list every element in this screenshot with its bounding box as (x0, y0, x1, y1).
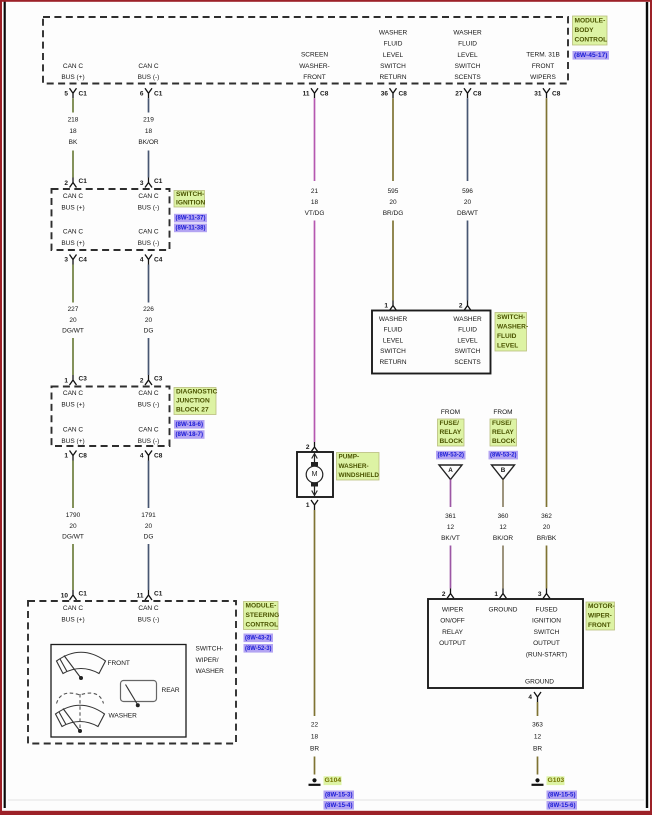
svg-text:(8W-15-3): (8W-15-3) (325, 791, 353, 798)
svg-text:FUSE/: FUSE/ (440, 420, 460, 427)
svg-text:1: 1 (384, 303, 388, 310)
svg-text:BUS (-): BUS (-) (138, 616, 160, 623)
svg-text:CAN C: CAN C (63, 63, 84, 70)
svg-text:SWITCH: SWITCH (380, 348, 406, 355)
svg-text:RETURN: RETURN (379, 74, 406, 81)
svg-text:SWITCH-: SWITCH- (176, 191, 204, 198)
svg-text:WASHER-: WASHER- (497, 323, 528, 330)
svg-text:(8W-52-3): (8W-52-3) (245, 645, 272, 652)
svg-text:C3: C3 (154, 376, 163, 383)
svg-text:BK/OR: BK/OR (138, 139, 159, 146)
svg-text:(8W-15-4): (8W-15-4) (325, 802, 353, 809)
svg-text:FLUID: FLUID (384, 327, 403, 334)
svg-text:1: 1 (494, 591, 498, 598)
svg-text:WASHER-: WASHER- (299, 63, 329, 70)
svg-text:BUS (-): BUS (-) (138, 438, 160, 445)
svg-text:SWITCH-: SWITCH- (196, 646, 224, 653)
svg-text:11: 11 (137, 593, 144, 600)
svg-text:CAN C: CAN C (138, 427, 159, 434)
svg-text:FRONT: FRONT (108, 660, 130, 667)
svg-text:RELAY: RELAY (492, 429, 514, 436)
svg-text:C1: C1 (79, 90, 88, 97)
svg-text:BK/VT: BK/VT (441, 535, 460, 542)
svg-text:CAN C: CAN C (138, 193, 159, 200)
svg-text:6: 6 (140, 90, 144, 97)
svg-text:227: 227 (68, 306, 79, 313)
svg-text:18: 18 (69, 128, 77, 135)
svg-text:REAR: REAR (162, 687, 180, 694)
svg-text:CAN C: CAN C (63, 605, 84, 612)
svg-text:WASHER: WASHER (379, 29, 408, 36)
svg-text:CAN C: CAN C (138, 390, 159, 397)
svg-text:2: 2 (306, 444, 310, 451)
svg-text:FLUID: FLUID (458, 327, 477, 334)
svg-text:BUS (+): BUS (+) (61, 401, 84, 408)
svg-text:595: 595 (388, 188, 399, 195)
svg-text:WASHER: WASHER (109, 713, 138, 720)
svg-text:FRONT: FRONT (532, 63, 554, 70)
svg-text:1: 1 (64, 378, 68, 385)
svg-text:JUNCTION: JUNCTION (176, 398, 210, 405)
svg-text:C1: C1 (79, 178, 88, 185)
svg-text:2: 2 (64, 180, 68, 187)
svg-text:BLOCK: BLOCK (440, 438, 464, 445)
svg-text:C8: C8 (473, 90, 482, 97)
svg-text:C4: C4 (79, 256, 88, 263)
svg-text:12: 12 (534, 734, 542, 741)
svg-text:2: 2 (459, 303, 463, 310)
svg-text:FRONT: FRONT (303, 74, 325, 81)
svg-text:31: 31 (534, 90, 542, 97)
svg-text:C1: C1 (154, 178, 163, 185)
svg-text:MODULE-: MODULE- (246, 603, 277, 610)
svg-text:FRONT: FRONT (588, 622, 611, 629)
svg-text:11: 11 (303, 90, 310, 97)
svg-text:1791: 1791 (141, 512, 156, 519)
svg-text:DB/WT: DB/WT (457, 210, 478, 217)
svg-text:20: 20 (389, 199, 397, 206)
svg-text:LEVEL: LEVEL (457, 337, 478, 344)
svg-text:22: 22 (311, 722, 319, 729)
svg-text:CAN C: CAN C (63, 390, 84, 397)
svg-text:DG: DG (144, 328, 154, 335)
svg-text:MODULE-: MODULE- (575, 17, 606, 24)
svg-text:MOTOR-: MOTOR- (588, 603, 615, 610)
svg-text:RELAY: RELAY (440, 429, 462, 436)
svg-text:363: 363 (532, 722, 543, 729)
svg-text:BLOCK: BLOCK (492, 438, 516, 445)
svg-text:12: 12 (499, 524, 507, 531)
svg-text:(8W-53-2): (8W-53-2) (438, 452, 465, 459)
svg-text:BK: BK (69, 139, 78, 146)
svg-text:FLUID: FLUID (458, 41, 477, 48)
svg-text:5: 5 (64, 90, 68, 97)
svg-text:18: 18 (145, 128, 153, 135)
svg-text:WASHER: WASHER (196, 668, 225, 675)
svg-text:CAN C: CAN C (138, 605, 159, 612)
svg-text:20: 20 (464, 199, 472, 206)
svg-text:4: 4 (528, 694, 532, 701)
svg-text:(8W-45-17): (8W-45-17) (574, 52, 608, 59)
svg-text:FLUID: FLUID (497, 333, 517, 340)
svg-text:SWITCH-: SWITCH- (497, 314, 525, 321)
svg-text:362: 362 (541, 513, 552, 520)
svg-text:WINDSHIELD: WINDSHIELD (339, 472, 380, 479)
svg-text:CAN C: CAN C (63, 229, 84, 236)
svg-text:DG/WT: DG/WT (62, 534, 84, 541)
svg-text:SCENTS: SCENTS (454, 74, 481, 81)
svg-text:OUTPUT: OUTPUT (439, 640, 466, 647)
svg-text:BUS (+): BUS (+) (61, 616, 84, 623)
svg-text:C1: C1 (154, 90, 163, 97)
svg-text:DG: DG (144, 534, 154, 541)
svg-text:B: B (501, 467, 506, 474)
svg-text:10: 10 (61, 593, 69, 600)
svg-text:WASHER: WASHER (379, 316, 408, 323)
svg-text:TERM. 31B: TERM. 31B (526, 52, 560, 59)
svg-text:VT/DG: VT/DG (305, 210, 325, 217)
svg-text:LEVEL: LEVEL (383, 52, 404, 59)
svg-text:IGNITION: IGNITION (176, 199, 206, 206)
svg-text:DG/WT: DG/WT (62, 328, 84, 335)
svg-text:BUS (+): BUS (+) (61, 240, 84, 247)
svg-text:SCENTS: SCENTS (454, 359, 481, 366)
svg-text:361: 361 (445, 513, 456, 520)
svg-text:SWITCH: SWITCH (455, 348, 481, 355)
svg-text:IGNITION: IGNITION (532, 618, 561, 625)
svg-text:BODY: BODY (575, 27, 595, 34)
svg-text:2: 2 (140, 378, 144, 385)
svg-text:SCREEN: SCREEN (301, 52, 328, 59)
svg-text:BUS (+): BUS (+) (61, 204, 84, 211)
svg-text:OUTPUT: OUTPUT (533, 640, 560, 647)
svg-text:(8W-11-38): (8W-11-38) (176, 225, 206, 232)
svg-text:C3: C3 (79, 376, 88, 383)
svg-text:RETURN: RETURN (379, 359, 406, 366)
svg-text:21: 21 (311, 188, 319, 195)
svg-text:1790: 1790 (66, 512, 81, 519)
svg-text:BLOCK 27: BLOCK 27 (176, 407, 209, 414)
svg-text:3: 3 (140, 180, 144, 187)
svg-text:G104: G104 (325, 777, 342, 784)
svg-text:(8W-18-7): (8W-18-7) (176, 431, 204, 438)
svg-text:12: 12 (447, 524, 455, 531)
svg-text:BUS (-): BUS (-) (138, 74, 160, 81)
svg-text:2: 2 (442, 591, 446, 598)
svg-text:BK/OR: BK/OR (493, 535, 514, 542)
svg-text:LEVEL: LEVEL (497, 343, 518, 350)
svg-text:RELAY: RELAY (442, 629, 463, 636)
svg-text:C1: C1 (154, 591, 163, 598)
svg-text:WIPERS: WIPERS (530, 74, 556, 81)
svg-text:BR: BR (533, 746, 542, 753)
svg-text:(8W-53-2): (8W-53-2) (490, 452, 517, 459)
svg-text:CAN C: CAN C (63, 427, 84, 434)
svg-text:18: 18 (311, 199, 319, 206)
svg-text:CAN C: CAN C (138, 229, 159, 236)
svg-text:360: 360 (498, 513, 509, 520)
svg-text:M: M (312, 471, 318, 478)
svg-text:C8: C8 (399, 90, 408, 97)
svg-text:CONTROL: CONTROL (246, 621, 279, 628)
svg-text:1: 1 (306, 502, 310, 509)
svg-text:226: 226 (143, 306, 154, 313)
svg-text:(8W-18-6): (8W-18-6) (176, 421, 204, 428)
svg-text:218: 218 (68, 117, 79, 124)
svg-text:G103: G103 (548, 777, 565, 784)
svg-text:4: 4 (140, 256, 144, 263)
svg-text:BR/DG: BR/DG (383, 210, 404, 217)
svg-text:596: 596 (462, 188, 473, 195)
svg-text:C8: C8 (320, 90, 329, 97)
svg-text:FUSE/: FUSE/ (492, 420, 512, 427)
svg-text:SWITCH: SWITCH (455, 63, 481, 70)
svg-text:FUSED: FUSED (535, 607, 557, 614)
svg-text:WASHER: WASHER (453, 29, 482, 36)
svg-text:WASHER-: WASHER- (339, 463, 369, 470)
svg-text:C8: C8 (552, 90, 561, 97)
svg-text:20: 20 (69, 317, 77, 324)
svg-text:LEVEL: LEVEL (383, 337, 404, 344)
svg-text:STEERING: STEERING (246, 612, 280, 619)
svg-text:WASHER: WASHER (453, 316, 482, 323)
svg-text:BUS (-): BUS (-) (138, 401, 160, 408)
svg-text:GROUND: GROUND (525, 679, 554, 686)
svg-text:(8W-15-5): (8W-15-5) (548, 791, 576, 798)
svg-text:C1: C1 (79, 591, 88, 598)
svg-text:WIPER/: WIPER/ (196, 657, 219, 664)
svg-text:BUS (-): BUS (-) (138, 204, 160, 211)
svg-text:C4: C4 (154, 256, 163, 263)
svg-text:20: 20 (145, 523, 153, 530)
svg-text:219: 219 (143, 117, 154, 124)
svg-text:LEVEL: LEVEL (457, 52, 478, 59)
svg-text:WIPER-: WIPER- (588, 613, 612, 620)
svg-text:(8W-43-2): (8W-43-2) (245, 634, 272, 641)
svg-text:BUS (-): BUS (-) (138, 240, 160, 247)
svg-text:(8W-15-6): (8W-15-6) (548, 802, 576, 809)
svg-text:20: 20 (69, 523, 77, 530)
svg-text:20: 20 (145, 317, 153, 324)
svg-text:FLUID: FLUID (384, 41, 403, 48)
svg-text:SWITCH: SWITCH (534, 629, 560, 636)
svg-text:36: 36 (381, 90, 389, 97)
svg-text:4: 4 (140, 452, 144, 459)
svg-text:A: A (448, 467, 453, 474)
svg-text:C8: C8 (154, 452, 163, 459)
svg-text:BUS (+): BUS (+) (61, 74, 84, 81)
svg-text:C8: C8 (79, 452, 88, 459)
svg-text:BUS (+): BUS (+) (61, 438, 84, 445)
svg-text:WIPER: WIPER (442, 607, 464, 614)
svg-text:27: 27 (455, 90, 463, 97)
svg-text:GROUND: GROUND (489, 607, 518, 614)
svg-text:CAN C: CAN C (138, 63, 159, 70)
svg-text:CONTROL: CONTROL (575, 37, 608, 44)
svg-text:18: 18 (311, 734, 319, 741)
svg-text:FROM: FROM (493, 409, 512, 416)
svg-text:3: 3 (538, 591, 542, 598)
svg-text:SWITCH: SWITCH (380, 63, 406, 70)
svg-text:DIAGNOSTIC: DIAGNOSTIC (176, 389, 218, 396)
svg-text:BR/BK: BR/BK (537, 535, 557, 542)
svg-text:PUMP-: PUMP- (339, 454, 360, 461)
svg-text:3: 3 (64, 256, 68, 263)
svg-text:(RUN-START): (RUN-START) (526, 651, 567, 658)
svg-text:FROM: FROM (441, 409, 460, 416)
svg-text:(8W-11-37): (8W-11-37) (176, 215, 206, 222)
svg-text:20: 20 (543, 524, 551, 531)
svg-text:1: 1 (64, 452, 68, 459)
svg-text:CAN C: CAN C (63, 193, 84, 200)
svg-text:ON/OFF: ON/OFF (440, 618, 465, 625)
svg-text:BR: BR (310, 746, 319, 753)
